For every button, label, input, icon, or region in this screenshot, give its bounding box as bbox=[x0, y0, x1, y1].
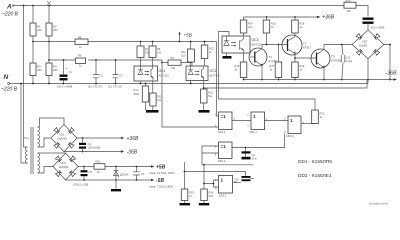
wire: R1 bottom to node bbox=[32, 36, 34, 63]
wire: bridge VD7 minus column bbox=[384, 45, 390, 80]
node: emitter bus tap bbox=[203, 87, 205, 89]
OC2 emitter pin down bbox=[203, 81, 205, 90]
fuse mark FU1 bbox=[47, 1, 51, 5]
svg-text:ОС3: ОС3 bbox=[252, 38, 259, 42]
OC2 phototransistor bbox=[202, 67, 204, 81]
wire: +36V rail of amplifier bbox=[244, 16, 318, 18]
svg-text:ОС2: ОС2 bbox=[210, 69, 217, 73]
resistor R19 (T3 base to rail) bbox=[294, 58, 296, 62]
resistor R8 bbox=[152, 41, 154, 43]
svg-text:R7: R7 bbox=[145, 47, 149, 51]
node +5V stub on bias bus bbox=[179, 41, 181, 43]
svg-text:АОТ110: АОТ110 bbox=[252, 43, 263, 47]
resistor R12a (OC2 collector pull-up) bbox=[204, 42, 206, 46]
diode bridge VD2 bbox=[53, 153, 78, 180]
resistor R9 bbox=[162, 62, 168, 64]
svg-text:DD2.3: DD2.3 bbox=[219, 194, 227, 198]
svg-text:КТ817: КТ817 bbox=[303, 45, 311, 49]
svg-text:~220 В: ~220 В bbox=[2, 12, 19, 18]
svg-text:510: 510 bbox=[181, 54, 186, 58]
svg-text:DD2.1: DD2.1 bbox=[250, 130, 258, 134]
svg-text:DD2.2: DD2.2 bbox=[287, 134, 295, 138]
svg-text:R8: R8 bbox=[157, 47, 161, 51]
svg-text:(выв. 7 DD1, DD2): (выв. 7 DD1, DD2) bbox=[150, 185, 174, 189]
svg-text:=1: =1 bbox=[221, 114, 227, 119]
svg-text:+: + bbox=[66, 66, 68, 70]
wire: DD2.2 in2 from feedback bbox=[284, 134, 286, 149]
svg-text:R13: R13 bbox=[208, 91, 213, 95]
ground bar (R23) bbox=[180, 203, 191, 205]
svg-text:R12: R12 bbox=[209, 47, 214, 51]
gate DD2.3 bbox=[219, 176, 233, 194]
capacitor C10 bbox=[240, 178, 242, 180]
capacitor C4 bbox=[82, 138, 84, 152]
capacitor C9 bbox=[245, 148, 247, 152]
wire: bridge VD1 minus to -36V arrow bbox=[64, 151, 121, 153]
ground bar (OC3 cathode) bbox=[226, 53, 228, 56]
wire: mains A drop to transformer primary bbox=[24, 6, 28, 148]
gate DD1.1 bbox=[219, 112, 233, 130]
ground bar (R24) bbox=[199, 203, 210, 205]
resistor R20 (mains top right) bbox=[344, 2, 356, 8]
svg-text:510: 510 bbox=[209, 194, 214, 198]
OC3 phototransistor bbox=[240, 37, 244, 54]
svg-text:-5В: -5В bbox=[156, 178, 164, 184]
svg-text:(0,1 К73-17): (0,1 К73-17) bbox=[88, 85, 102, 89]
resistor R3 bbox=[30, 63, 36, 76]
OC1 emitter pin down bbox=[152, 81, 154, 93]
wire: bridge VD7 bottom to N rail bbox=[367, 59, 369, 84]
svg-text:R16: R16 bbox=[271, 22, 276, 26]
svg-text:R6: R6 bbox=[78, 54, 82, 58]
wire: T2 emitter to T3 base bbox=[295, 57, 317, 59]
wires: DD2.3 tied inputs bbox=[204, 180, 219, 187]
capacitor C12 bbox=[342, 45, 343, 80]
wire: common bus y88 to amplifier bbox=[204, 80, 367, 89]
svg-text:0,1мк: 0,1мк bbox=[346, 59, 353, 63]
svg-text:С4: С4 bbox=[88, 142, 92, 146]
resistor R17 (T2 base to rail) bbox=[278, 45, 280, 63]
svg-text:240: 240 bbox=[37, 28, 42, 32]
wire: secondary I top to bridge VD1 bbox=[38, 118, 65, 127]
wire: DD2.1 out to DD2.2 bbox=[265, 120, 289, 123]
resistor R16 (T2 base) bbox=[266, 16, 268, 18]
svg-text:С3: С3 bbox=[119, 74, 123, 78]
svg-text:С6: С6 bbox=[141, 172, 145, 176]
wire: riser x184.5 bbox=[184, 162, 186, 189]
svg-text:VD2: VD2 bbox=[61, 161, 67, 165]
transistor T1 bbox=[249, 48, 267, 66]
svg-text:R11: R11 bbox=[157, 95, 162, 99]
gate DD1.2 bbox=[219, 142, 233, 159]
svg-text:DD1.1: DD1.1 bbox=[218, 130, 226, 134]
OC2 LED bbox=[188, 67, 193, 75]
node: junction A/col1 bbox=[23, 5, 25, 7]
wire: secondary I bottom to bridge VD1 left bbox=[38, 138, 52, 147]
svg-text:R17: R17 bbox=[270, 64, 275, 68]
resistor R22 (feedback) bbox=[312, 110, 319, 124]
wire: DD1.1 out to DD2.1 bbox=[232, 120, 251, 122]
OC1 pin to N bbox=[140, 81, 142, 84]
capacitor C5 bbox=[83, 167, 85, 181]
diode bridge VD7 bbox=[352, 30, 384, 59]
svg-text:С5: С5 bbox=[89, 170, 93, 174]
svg-text:100,0х50В: 100,0х50В bbox=[88, 146, 101, 150]
svg-text:+36В: +36В bbox=[322, 15, 335, 21]
svg-text:КЦ405: КЦ405 bbox=[359, 44, 367, 48]
transistor T3 bbox=[311, 49, 330, 68]
wire: bridge VD1 plus to +36V arrow bbox=[77, 137, 121, 139]
resistor R15 (OC3 emitter) bbox=[243, 53, 245, 62]
svg-text:С1: С1 bbox=[69, 70, 73, 74]
OC1 LED bbox=[138, 67, 143, 75]
ground bar (under OC1 divider) bbox=[146, 110, 159, 113]
wire: R20 to C13 bbox=[356, 6, 368, 17]
capacitor C13 bbox=[363, 18, 374, 20]
resistor R23 bbox=[181, 189, 188, 201]
transformer secondary winding II bbox=[38, 153, 40, 173]
svg-text:С12: С12 bbox=[346, 56, 351, 60]
svg-text:(выв. 14 DD1, DD2): (выв. 14 DD1, DD2) bbox=[150, 171, 175, 175]
wire: DD2.3 output bbox=[233, 182, 242, 184]
wire: R2 bottom column bbox=[48, 36, 50, 63]
svg-text:N: N bbox=[4, 74, 9, 81]
svg-text:R9: R9 bbox=[171, 56, 175, 60]
svg-text:R11: R11 bbox=[181, 50, 186, 54]
wires: DD1.2 tied inputs bbox=[202, 146, 219, 165]
svg-text:20 в: 20 в bbox=[252, 157, 258, 161]
wire: DD1.2 out bus bbox=[232, 147, 285, 149]
capacitor C1 bbox=[63, 60, 65, 84]
svg-text:DD1.2: DD1.2 bbox=[218, 159, 226, 163]
capacitor C3 bbox=[115, 60, 117, 84]
svg-text:~220 В: ~220 В bbox=[1, 87, 18, 93]
wire: DD2.2 out to R22 bbox=[301, 123, 315, 125]
optocoupler U2 (OC2) box bbox=[186, 66, 208, 81]
wire: bias bus upper y41.5 bbox=[33, 41, 217, 43]
wire: -36V emitter rail bbox=[244, 79, 390, 81]
svg-text:+5В: +5В bbox=[184, 33, 192, 38]
wire: riser x162 to DD1.1 input 2 bbox=[162, 60, 219, 127]
wire: logic bus y165 bbox=[202, 164, 253, 166]
wire: secondary II bottom to bridge VD2 left bbox=[38, 167, 54, 174]
wire: N drop to transformer primary bbox=[21, 84, 28, 164]
node: junction A/R2 bbox=[48, 5, 50, 7]
ground bar (under OC2 divider) bbox=[199, 110, 210, 113]
svg-text:DD1 - К155ЛП5: DD1 - К155ЛП5 bbox=[298, 159, 332, 165]
optocoupler U1 (OC1) box bbox=[134, 66, 158, 81]
svg-text:-36В: -36В bbox=[127, 150, 138, 156]
resistor R18 (T2 collector) bbox=[294, 16, 296, 18]
svg-text:КТ818Б: КТ818Б bbox=[331, 58, 341, 62]
gate DD2.2 bbox=[288, 116, 301, 134]
resistor R12 (above OC2) bbox=[190, 42, 192, 50]
svg-text:560к: 560к bbox=[134, 92, 140, 96]
resistor R10 bbox=[145, 84, 147, 87]
terminal A bbox=[12, 5, 14, 7]
optocoupler U3 (OC3) box bbox=[222, 36, 250, 53]
node: junction A/R1 bbox=[32, 5, 34, 7]
svg-text:240: 240 bbox=[37, 68, 42, 72]
resistor R6 bbox=[76, 58, 86, 64]
svg-text:1: 1 bbox=[253, 114, 256, 119]
svg-text:АОТ110: АОТ110 bbox=[159, 74, 170, 78]
svg-text:DD2 - К155ЛЕ1: DD2 - К155ЛЕ1 bbox=[298, 173, 332, 179]
svg-text:b0ya@texnika: b0ya@texnika bbox=[369, 202, 388, 206]
svg-text:R5: R5 bbox=[78, 36, 82, 40]
svg-text:(0,1 К73-17): (0,1 К73-17) bbox=[108, 85, 122, 89]
transistor T2 bbox=[282, 35, 302, 55]
wire: OC3 anode hook to feedback riser bbox=[219, 32, 316, 111]
svg-text:Д815А: Д815А bbox=[120, 173, 129, 177]
svg-text:КЦ405А: КЦ405А bbox=[59, 165, 69, 169]
capacitor C6 bbox=[136, 166, 138, 168]
resistor R1 bbox=[32, 6, 34, 24]
wire: top mains rail A bbox=[14, 5, 344, 7]
resistor R7 bbox=[140, 41, 142, 43]
transformer core bbox=[31, 127, 33, 174]
svg-text:R20: R20 bbox=[346, 0, 351, 3]
svg-text:R18: R18 bbox=[300, 22, 305, 26]
svg-text:+36В: +36В bbox=[127, 136, 139, 142]
svg-text:VD7: VD7 bbox=[362, 40, 368, 44]
wire: T1 collector to T2 base bbox=[262, 44, 288, 46]
resistor R13 (under OC2) bbox=[201, 89, 208, 103]
svg-text:240: 240 bbox=[53, 68, 58, 72]
svg-text:1000,0 х 25В: 1000,0 х 25В bbox=[73, 183, 89, 187]
ground bar (logic common) bbox=[115, 180, 117, 189]
diode bridge VD1 bbox=[51, 125, 77, 152]
OC1 phototransistor bbox=[151, 67, 153, 81]
wire: bias bus lower y60 bbox=[49, 59, 162, 61]
capacitor C2 bbox=[95, 60, 97, 84]
transformer primary winding bbox=[26, 147, 28, 163]
svg-text:С10: С10 bbox=[234, 178, 239, 182]
svg-text:R19: R19 bbox=[300, 64, 305, 68]
svg-text:100,0 х 400В: 100,0 х 400В bbox=[57, 85, 73, 89]
svg-text:КЦ405А: КЦ405А bbox=[58, 137, 68, 141]
svg-text:=1: =1 bbox=[221, 144, 227, 149]
transformer secondary winding I bbox=[38, 127, 40, 147]
svg-text:10,0 х 450В: 10,0 х 450В bbox=[371, 26, 385, 30]
wire: lower bus y173 bbox=[185, 172, 246, 176]
svg-text:R14: R14 bbox=[248, 22, 253, 26]
wire: T3 collector to bridge left bbox=[324, 44, 352, 46]
zener VD11 bbox=[115, 166, 117, 168]
resistor R24 bbox=[203, 165, 205, 189]
wire: +5V line bbox=[105, 166, 151, 168]
svg-text:С9: С9 bbox=[252, 153, 256, 157]
wire: bridge VD2 plus output bbox=[78, 166, 94, 168]
svg-text:Тр1: Тр1 bbox=[24, 136, 29, 140]
resistor R2 bbox=[48, 6, 50, 24]
resistor R14 (OC3 feed) bbox=[243, 17, 245, 20]
svg-text:R10: R10 bbox=[134, 88, 139, 92]
svg-text:1: 1 bbox=[290, 118, 293, 123]
svg-text:1: 1 bbox=[221, 178, 224, 183]
wire: N mains rail bbox=[10, 83, 368, 85]
svg-text:A: A bbox=[6, 4, 12, 11]
wire: secondary II top to bridge VD2 bbox=[38, 152, 66, 154]
svg-text:510: 510 bbox=[157, 51, 162, 55]
svg-text:-36В: -36В bbox=[386, 71, 397, 77]
resistor R21 bbox=[94, 164, 105, 170]
svg-text:R21: R21 bbox=[96, 160, 101, 164]
svg-text:R22: R22 bbox=[320, 112, 325, 116]
OC2 pin to N bbox=[190, 81, 192, 84]
gate DD2.1 bbox=[251, 112, 265, 130]
resistor R11 bbox=[150, 93, 156, 106]
svg-text:240: 240 bbox=[53, 28, 58, 32]
svg-text:R24: R24 bbox=[209, 191, 214, 195]
wire: common 0V line bbox=[66, 179, 152, 181]
svg-text:R23: R23 bbox=[189, 191, 194, 195]
svg-text:VD1: VD1 bbox=[59, 133, 65, 137]
wire: riser x216.5 to DD1.1 input 1 bbox=[217, 42, 219, 117]
resistor R5 bbox=[75, 39, 88, 45]
resistor R4 bbox=[46, 63, 52, 76]
svg-text:+5В: +5В bbox=[156, 165, 166, 171]
OC3 LED bbox=[224, 37, 229, 46]
svg-text:R15: R15 bbox=[235, 64, 240, 68]
terminal N bbox=[8, 83, 10, 85]
svg-text:С2: С2 bbox=[100, 74, 104, 78]
